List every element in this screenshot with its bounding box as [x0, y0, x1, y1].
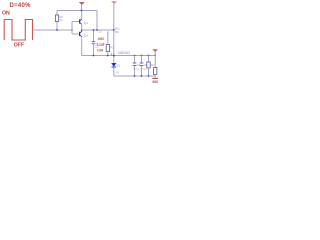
capacitor C2: [134, 56, 136, 64]
resistor R1 leads: [56, 11, 58, 16]
node junction x93.5: [93, 29, 95, 31]
ground: [152, 76, 158, 84]
svg-text:Q2: Q2: [84, 34, 88, 38]
capacitor C1: [92, 42, 96, 44]
svg-text:R2: R2: [110, 46, 114, 50]
wire mid rail: [82, 55, 156, 57]
svg-text:12: 12: [99, 29, 102, 33]
wire x113.8 down to diode: [113, 30, 115, 63]
wire top rail: [57, 10, 97, 12]
resistor R2: [106, 45, 109, 52]
wire x93.5 vertical upper: [93, 30, 95, 42]
wire diode to bottom rail: [113, 67, 115, 76]
wire output row: [82, 29, 114, 31]
svg-text:SS: SS: [115, 70, 119, 74]
node junction output: [81, 29, 83, 31]
svg-text:R3: R3: [151, 63, 155, 67]
wire x107.8 upper: [107, 32, 109, 45]
capacitor C3: [141, 56, 143, 64]
node junction x97: [96, 29, 98, 31]
svg-text:C2: C2: [137, 63, 141, 67]
wire bottom rail: [114, 75, 155, 77]
node junction VCC2-output: [113, 29, 115, 31]
svg-text:D1: D1: [117, 64, 121, 68]
wire Q1 collector: [81, 11, 83, 20]
wire base bus: [71, 22, 73, 35]
svg-text:1k: 1k: [59, 18, 63, 22]
wire base stub Q2: [72, 33, 80, 35]
wire R2 to rail: [107, 52, 109, 56]
power VCC3: [153, 49, 158, 55]
transistor Q1: [80, 19, 82, 24]
resistor R1: [55, 15, 58, 22]
svg-text:GND: GND: [152, 80, 158, 84]
svg-text:D=40%: D=40%: [10, 3, 32, 9]
wire emitter bus: [81, 24, 83, 32]
svg-text:1N5819WS: 1N5819WS: [117, 51, 130, 55]
svg-text:1N5819: 1N5819: [98, 37, 105, 41]
node junctions on mid rail: [93, 55, 95, 57]
svg-text:100R: 100R: [97, 48, 104, 52]
resistor R4 on right edge: [154, 56, 156, 68]
svg-text:OFF: OFF: [14, 43, 24, 49]
svg-text:0.1uF: 0.1uF: [97, 42, 105, 47]
resistor R3: [148, 56, 150, 63]
transistor Q2: [80, 31, 82, 36]
diode D1: [111, 63, 116, 67]
svg-text:Q1: Q1: [84, 21, 88, 25]
power VCC1: [79, 2, 84, 10]
svg-text:ON: ON: [2, 11, 10, 17]
wire Q2 emitter down: [81, 37, 83, 56]
wire x97 vertical: [96, 11, 98, 31]
power VCC2: [112, 1, 117, 30]
square wave: [4, 20, 32, 41]
wire x93.5 vertical lower: [93, 44, 95, 56]
wire base stub Q1: [72, 21, 80, 23]
node junction R1-input: [56, 29, 58, 31]
node junction VCC1-rail: [81, 10, 83, 12]
wire input row: [34, 29, 73, 31]
